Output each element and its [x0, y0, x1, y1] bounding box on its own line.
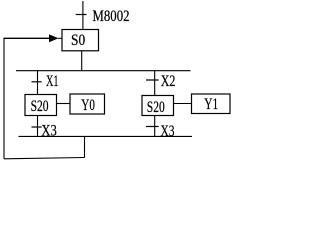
- step S0 (box): [62, 30, 99, 51]
- svg-text:X2: X2: [161, 73, 176, 90]
- svg-text:M8002: M8002: [93, 8, 130, 25]
- arrowhead into S0: [49, 34, 59, 42]
- svg-text:Y0: Y0: [81, 97, 95, 114]
- svg-text:S20: S20: [147, 99, 165, 116]
- wire: S20 right to action Y1: [174, 103, 192, 105]
- svg-text:Y1: Y1: [204, 96, 218, 113]
- transition X3 right (tick): [146, 126, 159, 128]
- wire: S0 bottom to divergence line: [81, 51, 83, 71]
- action Y0 (box): [70, 94, 105, 114]
- wire: below S20 left to convergence line: [37, 116, 39, 137]
- wire: left return rail up: [3, 38, 5, 159]
- wire: below S20 right to convergence line: [154, 115, 156, 136]
- step S20 left (box): [25, 95, 57, 116]
- action Y1 (box): [192, 94, 231, 114]
- wire: right branch down to transition X2: [154, 71, 156, 96]
- wire: left branch down to transition X1: [37, 71, 39, 95]
- transition X1 (tick): [32, 81, 42, 83]
- step S20 right (box): [142, 96, 174, 116]
- divergence line (selective branch): [16, 70, 191, 72]
- svg-text:X3: X3: [161, 123, 175, 140]
- svg-text:S0: S0: [71, 32, 85, 49]
- wire: S20 left to action Y0: [57, 103, 71, 105]
- wire: initial rail into transition M8002: [82, 1, 84, 30]
- wire: loop drop from convergence: [84, 136, 86, 157]
- wire: arrow tip stub to S0 edge: [58, 37, 62, 39]
- transition M8002 (tick): [76, 14, 87, 16]
- wire: bottom return line: [4, 158, 85, 159]
- svg-text:S20: S20: [31, 98, 49, 115]
- transition X3 left (tick): [32, 126, 42, 128]
- convergence line (branch merge): [19, 135, 193, 137]
- wire: arrow shaft into S0: [4, 37, 50, 39]
- transition X2 (tick): [146, 79, 159, 81]
- svg-text:X1: X1: [46, 73, 59, 90]
